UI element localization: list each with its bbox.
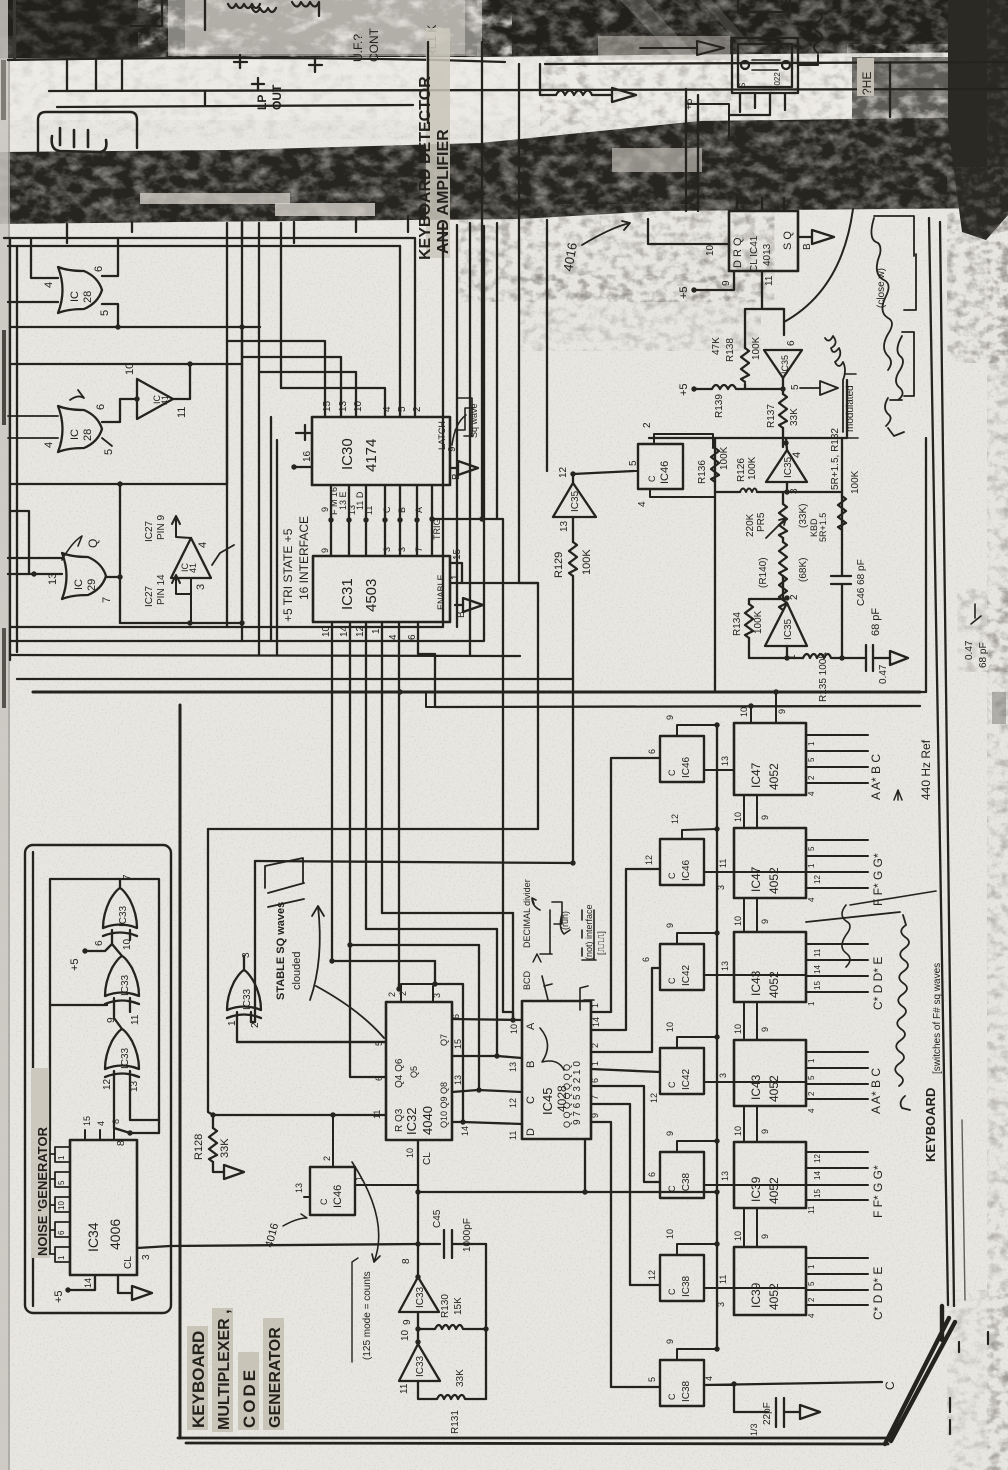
wire: verticals dropping through band right	[686, 62, 890, 211]
IC41 top pins into band	[737, 198, 784, 211]
svg-text:TRIG: TRIG	[432, 519, 442, 541]
svg-text:100K: 100K	[747, 456, 758, 480]
svg-text:12: 12	[647, 1270, 657, 1280]
svg-text:KEYBOARD: KEYBOARD	[189, 1331, 208, 1428]
clock line (IC34 CL to cap)	[170, 1244, 440, 1246]
svg-text:5: 5	[807, 1281, 816, 1286]
svg-text:11: 11	[508, 1131, 518, 1140]
svg-text:IC47: IC47	[749, 762, 763, 788]
svg-text:(run): (run)	[560, 911, 570, 930]
svg-text:1: 1	[450, 574, 461, 580]
bottom rail + R135	[749, 646, 859, 702]
sw2 pins	[670, 814, 734, 890]
svg-text:4: 4	[807, 897, 816, 902]
IC43b outputs A A* B C	[734, 1052, 883, 1114]
svg-text:4022: 4022	[773, 72, 782, 90]
svg-text:3: 3	[241, 952, 252, 958]
svg-text:12: 12	[558, 466, 569, 478]
svg-text:LATCH: LATCH	[437, 421, 447, 450]
svg-text:10: 10	[733, 1126, 743, 1136]
svg-text:13: 13	[559, 520, 570, 532]
svg-text:41: 41	[188, 563, 198, 573]
svg-text:28: 28	[82, 429, 94, 441]
svg-text:IC33: IC33	[242, 988, 253, 1010]
connector box (left, rounded)	[38, 112, 137, 151]
svg-text:S: S	[738, 83, 747, 88]
section second top line	[397, 689, 920, 707]
resistor R134 100K bypass	[732, 599, 785, 658]
right edge dark wedge	[948, 0, 1008, 240]
svg-text:13: 13	[720, 961, 730, 971]
enable B arrow	[455, 598, 483, 618]
svg-text:C: C	[667, 872, 677, 879]
xor gate IC33c	[227, 952, 261, 1028]
xor gate IC33n2	[105, 938, 139, 1004]
IC41 pin9 +5	[678, 271, 734, 299]
svg-text:6: 6	[786, 340, 797, 346]
sw3 pins	[665, 923, 734, 975]
svg-text:4006: 4006	[107, 1219, 123, 1250]
buffer IC33a (osc)	[399, 1258, 439, 1325]
svg-text:+5: +5	[69, 958, 81, 971]
svg-text:D R Q: D R Q	[732, 237, 744, 268]
switch sw1 IC46	[660, 736, 704, 782]
svg-text:IC35: IC35	[780, 355, 790, 374]
svg-text:C: C	[319, 1198, 329, 1205]
svg-text:9: 9	[760, 815, 770, 820]
capacitor C46 68pF	[831, 438, 882, 661]
svg-text:DECIMAL divider: DECIMAL divider	[522, 879, 532, 948]
svg-text:A A* B C: A A* B C	[869, 1068, 883, 1114]
grey wash extending below band (centre)	[473, 218, 760, 288]
IC31 enable pin 15/1	[450, 548, 538, 583]
IC41 Q output arrow	[798, 230, 834, 250]
svg-text:+5: +5	[678, 286, 690, 299]
svg-text:LP: LP	[255, 95, 269, 110]
sketch [run]	[532, 898, 570, 1000]
wire: long horizontal below top band	[8, 58, 1008, 64]
svg-text:C: C	[647, 475, 657, 482]
svg-text:C: C	[667, 977, 677, 984]
junctions into IC45 inputs	[396, 984, 499, 1125]
+5 label mid strip	[684, 98, 729, 140]
wire: stub column left	[67, 60, 122, 91]
svg-text:0.47: 0.47	[964, 640, 975, 660]
IC45 Q6 wire down to sw6	[590, 1095, 660, 1285]
svg-text:6: 6	[590, 1078, 600, 1083]
sq wave sketch (latch output)	[447, 398, 479, 452]
svg-text:5: 5	[397, 406, 408, 412]
IC39a outputs F F* G G*	[734, 1152, 885, 1218]
top dark band	[0, 0, 1008, 60]
buffer IC41b	[171, 538, 211, 578]
svg-text:IC39: IC39	[749, 1176, 763, 1202]
svg-text:2: 2	[807, 1091, 816, 1096]
svg-text:IC47: IC47	[749, 866, 763, 892]
IC30 4174 latch	[312, 417, 450, 485]
svg-text:IC46: IC46	[332, 1185, 344, 1208]
svg-text:9: 9	[402, 1319, 413, 1325]
mux IC47a 4052	[734, 723, 806, 795]
svg-text:4: 4	[807, 1108, 816, 1113]
svg-text:6: 6	[94, 940, 105, 946]
wire rail y484	[10, 364, 227, 487]
junction dots on bus	[328, 516, 434, 522]
latch B arrow out	[450, 461, 478, 480]
svg-text:13: 13	[720, 756, 730, 766]
svg-text:12: 12	[813, 1154, 822, 1163]
shift register IC34 4006	[70, 1140, 137, 1275]
switch sw4 IC42	[660, 1048, 704, 1094]
svg-text:47K: 47K	[711, 337, 722, 355]
IC33c wires	[237, 942, 386, 1042]
svg-text:CL: CL	[422, 1152, 433, 1165]
svg-text:?HE: ?HE	[860, 72, 874, 95]
sw5 pins	[647, 1131, 734, 1185]
wire: horizontal rail 3 + corner	[57, 91, 413, 107]
svg-text:6: 6	[93, 266, 105, 272]
svg-text:IC46: IC46	[659, 461, 671, 484]
bus pin labels row2	[320, 519, 442, 554]
svg-text:10: 10	[739, 707, 749, 717]
svg-text:14: 14	[83, 1278, 93, 1288]
svg-text:5: 5	[103, 449, 115, 455]
svg-text:5: 5	[57, 1180, 66, 1185]
svg-text:Sq wave: Sq wave	[469, 403, 479, 438]
svg-text:4: 4	[807, 791, 816, 796]
svg-text:D: D	[525, 1128, 537, 1136]
IC47b outputs F F* G G*	[734, 840, 885, 906]
svg-text:220K: 220K	[745, 513, 756, 537]
squiggle annotation (close w) top	[871, 216, 916, 370]
chain wires IC43b->IC39a	[733, 1106, 770, 1142]
svg-text:IC38: IC38	[681, 1380, 692, 1402]
wire enable chain down	[519, 64, 538, 829]
svg-text:[⎍⎍⎍]: [⎍⎍⎍]	[596, 931, 606, 955]
switch sw5 IC38	[660, 1152, 704, 1198]
resistor R136 100K (left edge)	[697, 446, 730, 484]
verticals down to IC32/IC45 row	[435, 913, 513, 1122]
svg-text:A: A	[525, 1022, 537, 1030]
svg-text:8: 8	[401, 1258, 412, 1264]
node + marks	[234, 55, 322, 72]
analog switch IC46b	[310, 1167, 355, 1215]
svg-text:9 7 6 5 3 2 1 0: 9 7 6 5 3 2 1 0	[572, 1061, 583, 1125]
sw7 output long wire to C	[704, 1381, 897, 1390]
switch sw7 IC38	[660, 1360, 704, 1406]
nested routing verticals	[271, 417, 277, 655]
+5 into gate2	[69, 940, 112, 971]
svg-text:R130: R130	[440, 1294, 451, 1318]
arrow annotation left of IC40	[640, 41, 724, 55]
svg-text:13: 13	[47, 573, 59, 585]
svg-text:A A* B C: A A* B C	[869, 754, 883, 800]
svg-text:R131: R131	[450, 1410, 461, 1434]
IC45 Q7 wire down to sw7	[590, 1113, 660, 1387]
svg-text:14: 14	[339, 625, 350, 637]
or-gate IC28a	[58, 267, 102, 313]
svg-text:9: 9	[665, 715, 675, 720]
svg-text:IC32: IC32	[404, 1108, 419, 1135]
svg-text:4: 4	[791, 452, 803, 458]
osc feedback right vertical	[483, 1244, 488, 1399]
mux IC43a 4052	[734, 932, 806, 1002]
IC45 Q2 wire up to sw2	[591, 855, 660, 1030]
sw1 pins	[665, 715, 734, 770]
svg-text:IC35: IC35	[783, 618, 794, 640]
IC28b wires + scribble	[8, 390, 112, 446]
IC28a wires	[8, 238, 118, 327]
or-gate IC28b	[58, 406, 102, 452]
wire right of IC40	[798, 12, 822, 65]
svg-text:5: 5	[790, 384, 801, 390]
svg-text:33K: 33K	[455, 1369, 466, 1387]
IC27 PIN9 arrow	[144, 515, 191, 542]
svg-text:15: 15	[453, 1039, 463, 1049]
capacitor C47 0.47 + gnd	[859, 645, 908, 684]
label U.F. CONT (rotated)	[351, 27, 381, 62]
svg-text:NOISE 'GENERATOR: NOISE 'GENERATOR	[35, 1126, 50, 1256]
svg-text:OUT: OUT	[270, 84, 284, 110]
svg-text:+5: +5	[53, 1290, 65, 1303]
svg-text:12: 12	[644, 855, 654, 865]
svg-text:10: 10	[733, 1231, 743, 1241]
svg-text:6: 6	[57, 1230, 66, 1235]
svg-text:+5: +5	[678, 383, 690, 396]
svg-text:9: 9	[760, 1234, 770, 1239]
buffer IC41a	[137, 379, 173, 419]
sw7 pins	[665, 1339, 734, 1385]
xor gate IC33n3	[105, 1014, 141, 1077]
svg-text:4: 4	[807, 1313, 816, 1318]
svg-text:7: 7	[122, 874, 133, 880]
svg-text:10: 10	[57, 1201, 66, 1210]
buffer IC35d (apex down)	[764, 340, 802, 390]
svg-text:100K: 100K	[753, 610, 764, 634]
svg-text:41: 41	[160, 395, 170, 405]
connector contacts	[52, 128, 107, 152]
svg-text:1: 1	[807, 741, 816, 746]
svg-text:IC43: IC43	[749, 1074, 763, 1100]
svg-text:4052: 4052	[767, 1075, 781, 1102]
wires IC30->IC31 (bus between)	[331, 485, 432, 556]
svg-text:4: 4	[43, 442, 55, 448]
svg-text:3: 3	[195, 584, 207, 590]
section left border	[179, 705, 182, 1438]
stub box left	[8, 511, 62, 577]
right-edge copy of cap labels	[964, 604, 989, 668]
svg-text:10: 10	[665, 1229, 675, 1239]
svg-text:C: C	[667, 1393, 677, 1400]
svg-text:GENERATOR: GENERATOR	[267, 1327, 284, 1428]
svg-text:5: 5	[807, 757, 816, 762]
svg-text:CONT: CONT	[367, 27, 381, 62]
IC31 4503 buffer	[313, 556, 450, 622]
label BCD->decimal divider	[522, 879, 541, 990]
svg-text:14: 14	[813, 965, 822, 974]
svg-text:1: 1	[807, 863, 816, 868]
right border double line	[929, 218, 965, 1306]
svg-text:R134: R134	[732, 612, 743, 636]
svg-text:8: 8	[111, 1119, 121, 1124]
svg-text:3: 3	[141, 1254, 152, 1260]
svg-text:R137: R137	[766, 404, 777, 428]
svg-text:C: C	[667, 1185, 677, 1192]
svg-text:4052: 4052	[767, 763, 781, 790]
svg-text:100K: 100K	[719, 446, 730, 470]
squiggly annotation between outputs	[842, 891, 936, 967]
svg-text:11: 11	[364, 506, 374, 515]
svg-text:6: 6	[647, 1172, 657, 1177]
svg-text:7: 7	[590, 1095, 600, 1100]
svg-text:R139: R139	[714, 394, 725, 418]
svg-text:R129: R129	[553, 552, 565, 578]
svg-text:CODE: CODE	[240, 1367, 259, 1428]
squiggle annotation lower	[885, 332, 914, 436]
svg-text:B: B	[397, 507, 407, 513]
svg-text:clouded: clouded	[291, 951, 303, 990]
staircase bends to counter inputs	[332, 913, 513, 961]
IC32 right outputs to IC45	[452, 1012, 522, 1124]
R131 33K rail	[418, 1369, 486, 1434]
left scanner edge	[0, 0, 8, 1470]
svg-text:IC34: IC34	[85, 1222, 101, 1252]
svg-text:IC: IC	[73, 579, 85, 590]
IC34 top pins	[82, 1116, 121, 1140]
label 440 Hz Ref	[894, 739, 933, 800]
IC34 +5 bottom	[53, 1275, 95, 1303]
svg-text:(125 mode = counts: (125 mode = counts	[362, 1271, 373, 1360]
svg-text:13: 13	[453, 1075, 463, 1085]
mux IC39b 4052	[734, 1247, 806, 1315]
svg-text:9: 9	[665, 923, 675, 928]
svg-text:1: 1	[807, 1001, 816, 1006]
svg-text:C* D D* E: C* D D* E	[871, 1267, 885, 1320]
svg-text:4: 4	[382, 406, 393, 412]
svg-text:IC39: IC39	[749, 1282, 763, 1308]
svg-text:IC33: IC33	[120, 974, 131, 996]
IC34 CL output pin 3	[137, 1246, 170, 1260]
svg-text:5R+1.5: 5R+1.5	[818, 513, 828, 542]
resistor R138 47K 100K	[711, 309, 784, 389]
svg-text:14: 14	[591, 1017, 601, 1027]
wire to IC35c	[546, 220, 548, 471]
svg-text:15: 15	[813, 1189, 822, 1198]
R137 33K	[766, 378, 800, 447]
svg-text:12: 12	[355, 625, 366, 637]
svg-text:1: 1	[807, 1264, 816, 1269]
svg-text:IC33: IC33	[415, 1286, 426, 1308]
svg-text:MULTIPLEXER ,: MULTIPLEXER ,	[216, 1309, 233, 1430]
bottom-right diagonal cut	[885, 1306, 955, 1444]
svg-text:9: 9	[665, 1131, 675, 1136]
svg-text:4503: 4503	[363, 579, 380, 612]
IC43a outputs C* D D* E	[734, 944, 885, 1010]
svg-text:C: C	[667, 1081, 677, 1088]
wire rails upper mux	[208, 829, 576, 1115]
svg-text:B: B	[456, 611, 467, 618]
svg-text:IC30: IC30	[339, 438, 356, 470]
buffer IC35c	[553, 466, 634, 532]
svg-text:9: 9	[447, 446, 458, 452]
box fragment at very top edge	[738, 0, 790, 12]
IC27 PIN14 arrow	[144, 574, 207, 623]
sw6 pins	[665, 1229, 734, 1307]
svg-text:14: 14	[460, 1126, 470, 1136]
svg-text:IC46: IC46	[681, 859, 692, 881]
svg-text:22pF: 22pF	[762, 1402, 773, 1425]
svg-text:Q: Q	[86, 539, 100, 548]
svg-text:16 INTERFACE: 16 INTERFACE	[297, 516, 311, 600]
svg-text:2: 2	[322, 1156, 332, 1161]
TRIG wire to right	[432, 516, 503, 1012]
IC46b pins	[294, 1112, 418, 1197]
wire rail y364	[10, 361, 242, 366]
svg-text:11: 11	[718, 1275, 728, 1284]
IC45 Q4 wire to sw4	[590, 1061, 660, 1072]
svg-text:2: 2	[807, 775, 816, 780]
svg-text:4: 4	[43, 282, 55, 288]
IC45 curved annotation arrow	[540, 1028, 564, 1070]
svg-text:5: 5	[628, 460, 639, 466]
svg-text:4174: 4174	[363, 439, 380, 472]
svg-text:11: 11	[130, 1014, 141, 1025]
chain wires IC47b->IC43a	[733, 898, 770, 932]
svg-text:10: 10	[321, 625, 332, 637]
svg-text:12: 12	[508, 1098, 518, 1108]
+5 feed to pin 16	[291, 425, 313, 470]
svg-text:BCD: BCD	[522, 970, 532, 990]
svg-text:R138: R138	[725, 338, 736, 362]
IC32 left input wires	[213, 945, 386, 1115]
svg-text:PR5: PR5	[756, 512, 767, 532]
label RL1 KL (rotated)	[425, 25, 439, 58]
svg-text:9: 9	[320, 548, 330, 553]
light gaps inside second band	[140, 193, 290, 204]
buffer IC33b (osc2)	[399, 1329, 440, 1394]
svg-text:5R+1.5, R132: 5R+1.5, R132	[830, 428, 841, 490]
svg-text:15K: 15K	[453, 1297, 464, 1315]
wire: horizontal rail 2	[49, 89, 1008, 91]
svg-text:1: 1	[807, 1058, 816, 1063]
label +5 TRI STATE +5	[281, 528, 295, 622]
svg-text:4040: 4040	[420, 1106, 435, 1135]
wire rail y327	[10, 324, 260, 329]
svg-text:10: 10	[509, 1024, 519, 1034]
svg-text:R128: R128	[193, 1134, 205, 1160]
svg-text:15: 15	[452, 548, 463, 560]
IC46a pins	[628, 422, 715, 507]
resistor R128 33K + gnd	[193, 1112, 244, 1179]
light patch under arrow	[598, 36, 730, 60]
band drop verticals (left column)	[227, 42, 428, 655]
or-gate IC29	[62, 553, 106, 599]
svg-text:PIN 9: PIN 9	[156, 515, 167, 540]
switch sw2 IC46	[660, 839, 704, 885]
svg-text:IC38: IC38	[681, 1172, 692, 1194]
svg-text:IC27: IC27	[144, 585, 155, 607]
svg-text:B: B	[525, 1061, 537, 1068]
svg-text:1: 1	[590, 1003, 600, 1008]
svg-text:KEYBOARD DETECTOR: KEYBOARD DETECTOR	[417, 76, 434, 260]
IC47a outputs A A* B C	[806, 735, 883, 800]
label 16 INTERFACE	[297, 516, 311, 600]
chain wires IC47a->IC47b	[733, 795, 770, 828]
svg-text:Q7: Q7	[439, 1034, 449, 1046]
noise inner box	[50, 879, 159, 1140]
+5 / R139 branch	[678, 383, 783, 418]
svg-text:10: 10	[733, 1024, 743, 1034]
